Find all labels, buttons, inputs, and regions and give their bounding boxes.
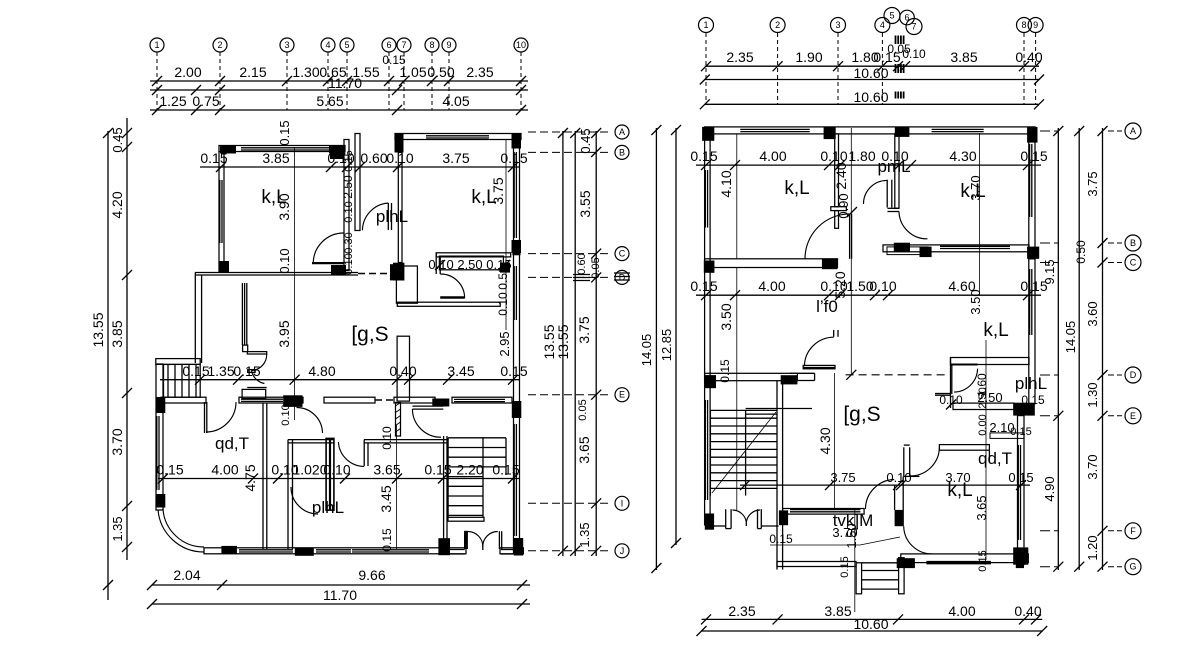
grid leader I bbox=[528, 502, 612, 504]
column hall mid bbox=[331, 265, 346, 275]
grid leader line 7 (left plan) bbox=[403, 52, 405, 110]
column left 1 bbox=[704, 261, 714, 273]
grid leader line 5 (left plan) bbox=[346, 52, 348, 110]
svg-text:3.65: 3.65 bbox=[576, 436, 592, 463]
window bottom 1 bbox=[239, 549, 293, 551]
svg-text:k,L: k,L bbox=[784, 178, 809, 199]
mid wall 3 (stair top) bbox=[705, 373, 798, 380]
window in top-right wall bbox=[426, 135, 489, 137]
dim tick bbox=[191, 105, 201, 115]
grid leader B (right) inner bbox=[1040, 242, 1058, 244]
grid bubble 2 (right plan) bbox=[770, 18, 785, 33]
dim tick bbox=[122, 142, 132, 152]
dim tick bbox=[147, 580, 157, 590]
window right 3 bbox=[1017, 445, 1019, 540]
bottom dim line 2 (left plan) bbox=[152, 603, 530, 605]
vert line tvk bbox=[854, 509, 856, 612]
grid bubble D (left plan) bbox=[615, 270, 629, 284]
grid bubble F (right plan) bbox=[1125, 523, 1141, 539]
dim tick bbox=[1016, 480, 1026, 490]
svg-text:0.40: 0.40 bbox=[389, 363, 416, 379]
dim tick bbox=[1053, 411, 1063, 421]
right dim line inner (left plan) bbox=[595, 131, 597, 556]
left dim line 12.85 (right plan) bbox=[675, 128, 677, 545]
svg-text:0.30: 0.30 bbox=[343, 232, 355, 253]
column left wall bbox=[219, 261, 229, 272]
svg-text:3.50: 3.50 bbox=[718, 303, 734, 330]
svg-text:4: 4 bbox=[880, 20, 885, 30]
wall stair right vert bbox=[776, 381, 778, 514]
dim tick bbox=[824, 290, 834, 300]
mid wall 1 (right plan) bbox=[705, 259, 838, 268]
svg-text:0.10: 0.10 bbox=[886, 470, 911, 485]
window top 2 bbox=[932, 128, 984, 130]
svg-text:5: 5 bbox=[889, 11, 894, 21]
svg-text:0.10: 0.10 bbox=[277, 248, 292, 273]
hatch marks mid bbox=[895, 64, 897, 73]
dim tick bbox=[1031, 614, 1041, 624]
dim tick bbox=[516, 76, 526, 86]
column plhL big bbox=[1013, 403, 1035, 416]
left outer wall lower bbox=[156, 364, 163, 510]
dim tick bbox=[191, 85, 201, 95]
dim tick bbox=[701, 160, 711, 170]
door arc kL left bbox=[866, 480, 895, 510]
wall cap k,L/pmL bbox=[831, 207, 847, 211]
bathroom inner band bbox=[439, 256, 503, 270]
svg-text:4.00: 4.00 bbox=[758, 278, 785, 294]
bottom wall west bbox=[204, 548, 466, 554]
svg-text:8: 8 bbox=[1021, 20, 1026, 30]
svg-text:9: 9 bbox=[1033, 20, 1038, 30]
svg-text:0.15: 0.15 bbox=[690, 148, 717, 164]
right dim line segments bbox=[1102, 128, 1104, 570]
column left 3 bbox=[705, 514, 714, 530]
svg-text:0.10: 0.10 bbox=[280, 404, 292, 425]
bottom stair right plan bbox=[856, 563, 862, 594]
dim tick bbox=[835, 160, 845, 170]
svg-text:13.55: 13.55 bbox=[90, 312, 106, 347]
left dim line inner bbox=[126, 118, 128, 560]
svg-text:A: A bbox=[1130, 126, 1136, 136]
grid bubble 1 (right plan) bbox=[699, 18, 714, 33]
vert line g4 bbox=[850, 128, 852, 375]
grid bubble B (right plan) bbox=[1125, 235, 1141, 251]
dim tick bbox=[591, 498, 601, 508]
svg-text:2: 2 bbox=[775, 20, 780, 30]
dim tick bbox=[393, 162, 403, 172]
window right 2 bbox=[1029, 269, 1031, 335]
svg-text:B: B bbox=[619, 147, 625, 157]
dim tick bbox=[342, 162, 352, 172]
dim tick bbox=[195, 375, 205, 385]
grid leader C (right) bbox=[1108, 262, 1122, 264]
dim tick bbox=[1034, 99, 1044, 109]
svg-text:2.35: 2.35 bbox=[466, 64, 493, 80]
porch post left bbox=[725, 509, 727, 528]
window bottom right bbox=[926, 561, 991, 563]
svg-text:0.15: 0.15 bbox=[343, 150, 355, 171]
dim tick bbox=[730, 290, 740, 300]
grid bubble 3 (left plan) bbox=[280, 38, 294, 52]
svg-text:C: C bbox=[619, 249, 626, 259]
svg-text:A: A bbox=[619, 127, 625, 137]
svg-text:3.85: 3.85 bbox=[262, 150, 289, 166]
column bottom left 2 bbox=[779, 510, 788, 525]
dim tick bbox=[152, 105, 162, 115]
column right mid bbox=[1027, 247, 1039, 259]
column bottom right 2 bbox=[1016, 552, 1024, 569]
grid leader F (right) inner bbox=[1040, 530, 1058, 532]
dim tick bbox=[342, 76, 352, 86]
right outer wall upper (right plan) bbox=[1029, 134, 1035, 259]
column left lower 2 bbox=[156, 494, 166, 508]
grid bubble A (right plan) bbox=[1125, 123, 1141, 139]
svg-text:0.90: 0.90 bbox=[836, 193, 851, 218]
closet bottom wall bbox=[247, 352, 266, 354]
dim tick bbox=[773, 614, 783, 624]
column right wall 1 bbox=[512, 240, 522, 253]
svg-text:1.25: 1.25 bbox=[159, 93, 186, 109]
int dim line y165 (right plan) bbox=[696, 164, 1041, 166]
svg-text:1.35: 1.35 bbox=[577, 522, 592, 547]
svg-text:3.65: 3.65 bbox=[974, 495, 989, 520]
dim tick bbox=[1098, 411, 1108, 421]
grid leader line 9 (left plan) bbox=[448, 52, 450, 110]
column top-left bbox=[220, 146, 236, 154]
triple bar marks C/D bbox=[573, 274, 590, 276]
entry door post left bbox=[464, 531, 468, 549]
window left wall upper bbox=[219, 180, 221, 243]
vert dim line room2 bbox=[505, 140, 507, 330]
svg-text:0.00: 0.00 bbox=[977, 414, 989, 435]
svg-text:13.55: 13.55 bbox=[555, 324, 571, 359]
dim tick bbox=[893, 61, 903, 71]
window right wall upper bbox=[513, 152, 515, 238]
wall plhL top bbox=[288, 439, 334, 441]
svg-text:2.15: 2.15 bbox=[239, 64, 266, 80]
wall qd,T right return bbox=[988, 450, 990, 462]
closet door arc bbox=[252, 354, 267, 371]
cupboard qd,T bbox=[242, 389, 266, 398]
dim tick bbox=[392, 105, 402, 115]
grid leader A (right) inner bbox=[1040, 130, 1058, 132]
column top-right bbox=[512, 134, 522, 149]
grid bubble E (left plan) bbox=[615, 388, 629, 402]
dim tick bbox=[773, 61, 783, 71]
wall pmL/kL bbox=[895, 134, 899, 208]
grid leader line 10 (left plan) bbox=[520, 52, 522, 110]
svg-text:0.10: 0.10 bbox=[820, 148, 847, 164]
wall piece left of plhL bbox=[935, 393, 951, 395]
dim tick bbox=[896, 480, 906, 490]
wall qd,T left bbox=[903, 447, 905, 476]
wall plhL/kL (left plan) bbox=[398, 153, 402, 263]
top wall left section bbox=[219, 146, 345, 152]
closet left wall bbox=[194, 273, 196, 364]
stair top wall (left) bbox=[156, 359, 200, 365]
dim tick bbox=[1023, 290, 1033, 300]
svg-text:0.10: 0.10 bbox=[902, 47, 926, 61]
window left 1 bbox=[704, 170, 706, 228]
svg-text:0.50: 0.50 bbox=[1074, 240, 1088, 264]
svg-text:[g,S: [g,S bbox=[351, 323, 388, 346]
bottom dim line 1 (right plan) bbox=[702, 618, 1043, 620]
dim tick bbox=[122, 501, 132, 511]
dim tick bbox=[1053, 562, 1063, 572]
column mid wall 2 bbox=[920, 247, 932, 258]
main stairs (right plan) bbox=[710, 409, 777, 411]
grid leader B bbox=[528, 151, 612, 153]
svg-text:9: 9 bbox=[446, 40, 451, 50]
bathroom bottom wall short bbox=[440, 296, 464, 299]
svg-text:4.30: 4.30 bbox=[949, 148, 976, 164]
svg-text:4.05: 4.05 bbox=[442, 93, 469, 109]
grid line 2 vertical b bbox=[736, 267, 738, 510]
column right wall 2 bbox=[512, 401, 522, 418]
dim tick bbox=[833, 61, 843, 71]
svg-text:0.15: 0.15 bbox=[1008, 470, 1033, 485]
dim tick bbox=[824, 160, 834, 170]
grid bubble D (right plan) bbox=[1125, 367, 1141, 383]
svg-text:4.75: 4.75 bbox=[242, 464, 258, 491]
shaft wall right bbox=[355, 134, 360, 231]
svg-text:0.10: 0.10 bbox=[323, 462, 350, 478]
svg-text:0.10: 0.10 bbox=[343, 253, 355, 274]
grid leader A (right) bbox=[1108, 130, 1122, 132]
svg-text:F: F bbox=[1130, 526, 1136, 536]
dim tick bbox=[558, 546, 568, 556]
pmL sink bbox=[887, 247, 928, 255]
grid leader 8 (right plan) bbox=[1023, 33, 1025, 104]
dim tick bbox=[326, 162, 336, 172]
door arc kL right bbox=[904, 526, 933, 554]
dim tick bbox=[340, 474, 350, 484]
grid leader G (right) inner bbox=[1040, 566, 1058, 568]
vert dim line rp2 upper bbox=[979, 133, 981, 296]
dim tick bbox=[570, 128, 580, 138]
dim tick bbox=[825, 480, 835, 490]
wall pmL right dark bbox=[326, 438, 334, 510]
right outer wall mid bbox=[1029, 259, 1035, 404]
dim tick bbox=[355, 162, 365, 172]
svg-text:3.55: 3.55 bbox=[577, 190, 593, 217]
dim tick bbox=[651, 563, 661, 573]
stair diagonal bbox=[712, 412, 776, 493]
window mid wall 2 bbox=[940, 245, 1010, 247]
dim tick bbox=[508, 162, 518, 172]
grid bubble E (right plan) bbox=[1125, 408, 1141, 424]
grid leader line 1 (left plan) bbox=[156, 52, 158, 110]
column top 2 bbox=[824, 127, 836, 139]
dim tick bbox=[392, 375, 402, 385]
door arc g,S south bbox=[412, 409, 441, 437]
svg-text:2.50: 2.50 bbox=[977, 387, 989, 408]
grid bubble B (left plan) bbox=[615, 145, 629, 159]
svg-text:3.95: 3.95 bbox=[276, 320, 292, 347]
grid leader line 4 (left plan) bbox=[327, 52, 329, 110]
column bathroom right bbox=[512, 242, 520, 256]
svg-text:4.80: 4.80 bbox=[308, 363, 335, 379]
porch double door bbox=[733, 510, 747, 523]
door arc plhL top bbox=[362, 203, 388, 230]
svg-text:4.90: 4.90 bbox=[1042, 476, 1057, 501]
dim tick bbox=[671, 125, 681, 135]
svg-text:14.05: 14.05 bbox=[639, 334, 654, 367]
grid bubble G (right plan) bbox=[1125, 559, 1141, 575]
dim tick bbox=[122, 542, 132, 552]
wall stair top h bbox=[746, 408, 812, 410]
window bottom 3 bbox=[352, 549, 429, 551]
dim tick bbox=[1019, 61, 1029, 71]
stair landing wall bbox=[448, 517, 484, 521]
svg-text:10.60: 10.60 bbox=[853, 616, 888, 632]
bathroom door arc bbox=[440, 274, 464, 298]
dim tick bbox=[152, 76, 162, 86]
svg-text:11.70: 11.70 bbox=[328, 75, 362, 91]
door arc pmL bbox=[863, 180, 887, 204]
dashed wall D row bbox=[846, 374, 948, 376]
svg-text:tvk]M: tvk]M bbox=[833, 511, 874, 530]
svg-text:0.60: 0.60 bbox=[576, 253, 588, 274]
dim line 1 (left top) bbox=[150, 80, 528, 82]
dim tick bbox=[516, 105, 526, 115]
svg-text:4.30: 4.30 bbox=[817, 427, 833, 454]
dim tick bbox=[215, 105, 225, 115]
svg-text:0.05: 0.05 bbox=[577, 399, 589, 420]
svg-text:2.20: 2.20 bbox=[456, 462, 483, 478]
svg-text:0.10: 0.10 bbox=[939, 393, 963, 407]
dim tick bbox=[217, 580, 227, 590]
duct small bbox=[396, 266, 417, 303]
door leaf qd,T bbox=[204, 402, 206, 433]
dim tick bbox=[233, 375, 243, 385]
dim tick bbox=[427, 76, 437, 86]
svg-text:3.60: 3.60 bbox=[1085, 301, 1100, 326]
wall k,L/pmL bbox=[835, 134, 839, 207]
curved wall bottom-left outer bbox=[158, 510, 204, 553]
curved wall bottom-left inner bbox=[163, 510, 204, 548]
int dim line y295 (right plan) bbox=[696, 294, 1041, 296]
dim tick bbox=[591, 249, 601, 259]
svg-text:qd,T: qd,T bbox=[215, 434, 249, 453]
dim tick bbox=[1098, 562, 1108, 572]
entry ledge east bbox=[501, 549, 513, 551]
svg-text:pmL: pmL bbox=[877, 157, 910, 176]
dim tick bbox=[122, 270, 132, 280]
left outer wall (right plan) bbox=[705, 134, 711, 525]
column right wall small bbox=[500, 263, 510, 273]
grid leader C (right) inner bbox=[1040, 262, 1058, 264]
dim tick bbox=[282, 76, 292, 86]
dim tick bbox=[877, 61, 887, 71]
svg-text:5.65: 5.65 bbox=[316, 93, 343, 109]
svg-text:2.95: 2.95 bbox=[497, 331, 512, 356]
svg-text:3.75: 3.75 bbox=[442, 150, 469, 166]
door arc plhL (right plan) bbox=[954, 369, 978, 393]
svg-text:C: C bbox=[1130, 258, 1137, 268]
dim tick bbox=[697, 626, 707, 636]
svg-text:0.15: 0.15 bbox=[839, 556, 851, 577]
main mid wall segment b bbox=[239, 397, 303, 403]
wall wc left vert bbox=[363, 440, 365, 466]
column bottom 3 bbox=[438, 538, 450, 555]
dim tick bbox=[516, 85, 526, 95]
svg-text:plhL: plhL bbox=[1015, 374, 1047, 393]
dim tick bbox=[1034, 75, 1044, 85]
bottom dim line 2 (right plan) bbox=[702, 630, 1043, 632]
svg-text:1.90: 1.90 bbox=[795, 49, 822, 65]
dim tick bbox=[508, 375, 518, 385]
svg-text:0.15: 0.15 bbox=[382, 53, 406, 67]
svg-text:3.45: 3.45 bbox=[447, 363, 474, 379]
svg-text:4: 4 bbox=[325, 40, 330, 50]
dim line 3 (right top) bbox=[705, 103, 1039, 105]
svg-text:0.05: 0.05 bbox=[590, 257, 602, 278]
grid bubble 8 (right plan) bbox=[1017, 18, 1032, 33]
bottom wall east bbox=[500, 548, 523, 554]
leader arrow bbox=[770, 544, 860, 546]
svg-text:3.85: 3.85 bbox=[824, 603, 851, 619]
column top-mid-right bbox=[395, 134, 404, 153]
entry door arc left bbox=[468, 532, 483, 548]
left dim line outer (13.55) bbox=[107, 131, 109, 600]
vert dim line rp2 lower bbox=[985, 340, 987, 560]
entry ledge west bbox=[449, 549, 465, 551]
dim tick bbox=[591, 390, 601, 400]
svg-text:4.00: 4.00 bbox=[211, 462, 238, 478]
door arc plhL bbox=[291, 487, 318, 514]
dim tick bbox=[1098, 238, 1108, 248]
dim tick bbox=[248, 474, 258, 484]
door arc hall (left plan) bbox=[313, 233, 343, 263]
svg-text:3.85: 3.85 bbox=[109, 320, 125, 347]
window right wall mid bbox=[513, 266, 515, 320]
column mid wall 2 bbox=[432, 399, 449, 407]
dim tick bbox=[508, 474, 518, 484]
wall kL bottom vert bbox=[894, 485, 896, 510]
dim tick 2.40 bbox=[847, 207, 857, 217]
svg-text:0.40: 0.40 bbox=[1015, 49, 1042, 65]
wall plhL left (right plan) bbox=[950, 358, 952, 409]
window mid wall e bbox=[454, 398, 505, 400]
bathroom left wall bbox=[435, 253, 437, 274]
dim tick bbox=[517, 599, 527, 609]
stairs small (left) bbox=[164, 364, 201, 397]
closet door arc 2 bbox=[252, 371, 265, 384]
grid bubble 6 (right plan) bbox=[900, 10, 915, 25]
svg-text:0.60: 0.60 bbox=[360, 150, 387, 166]
svg-text:0.50: 0.50 bbox=[427, 64, 454, 80]
dim line 2 (left top) bbox=[150, 89, 528, 91]
column right wall bottom bbox=[514, 538, 524, 556]
dim tick bbox=[1098, 526, 1108, 536]
vert dim line rp1 bbox=[736, 140, 738, 375]
svg-text:k,L: k,L bbox=[983, 320, 1008, 341]
right outer wall lower bbox=[1018, 416, 1025, 565]
door leaf g,S bbox=[803, 365, 835, 368]
grid leader A bbox=[528, 131, 612, 133]
door arc hall-south bbox=[297, 408, 323, 434]
dim tick bbox=[384, 76, 394, 86]
right dim line 9.15/4.90 bbox=[1057, 128, 1059, 570]
svg-text:k,L: k,L bbox=[960, 181, 985, 202]
svg-text:0.15: 0.15 bbox=[977, 550, 989, 571]
svg-text:11.70: 11.70 bbox=[323, 587, 357, 603]
wall qd,T / pmL bbox=[262, 403, 264, 549]
svg-text:10: 10 bbox=[516, 40, 526, 50]
dim tick bbox=[122, 128, 132, 138]
